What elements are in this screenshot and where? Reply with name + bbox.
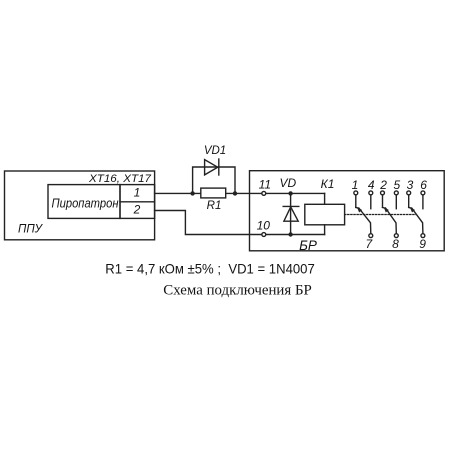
svg-text:R1 = 4,7 кОм ±5% ; VD1 = 1N40: R1 = 4,7 кОм ±5% ; VD1 = 1N4007 bbox=[105, 260, 315, 276]
diode VD1 (triangle) bbox=[205, 160, 218, 175]
contact group 2 (pins 2,5,8) bbox=[383, 195, 397, 233]
relay coil K1 (body) bbox=[305, 204, 345, 225]
svg-text:8: 8 bbox=[392, 237, 399, 251]
svg-text:ХТ16, ХТ17: ХТ16, ХТ17 bbox=[88, 173, 152, 185]
box Пиропатрон (inner unit) bbox=[48, 185, 120, 219]
dashed mechanical link from K1 to contacts bbox=[345, 214, 416, 216]
diode VD1 cathode bar bbox=[218, 159, 220, 175]
terminal circle pin 6 bbox=[421, 191, 425, 195]
terminal circle pin 9 bbox=[421, 234, 425, 238]
wire: pin 2 down and right to terminal 10 bbox=[155, 211, 325, 235]
svg-text:7: 7 bbox=[366, 237, 374, 251]
terminal circle 10 bbox=[262, 233, 266, 237]
svg-text:9: 9 bbox=[419, 237, 426, 251]
svg-text:VD1: VD1 bbox=[204, 145, 226, 157]
resistor R1 (body) bbox=[201, 188, 226, 198]
svg-text:3: 3 bbox=[407, 178, 414, 192]
svg-text:ППУ: ППУ bbox=[18, 224, 44, 236]
junction dot VD top bbox=[288, 191, 292, 195]
wire: pin 1 to node A bbox=[155, 192, 201, 194]
box ППУ (outer unit) bbox=[5, 171, 155, 240]
wire: coil K1 top connector bbox=[324, 193, 326, 204]
diode VD (triangle) bbox=[284, 207, 298, 221]
svg-text:1: 1 bbox=[134, 186, 141, 200]
terminal circle pin 2 bbox=[381, 191, 385, 195]
terminal block ХТ16/ХТ17 (pins 1,2) bbox=[120, 185, 155, 219]
svg-text:4: 4 bbox=[368, 178, 375, 192]
node A junction dot (left of R1) bbox=[190, 191, 194, 195]
terminal circle pin 1 bbox=[354, 191, 358, 195]
terminal circle pin 3 bbox=[407, 191, 411, 195]
contact group 1 (pins 1,4,7) bbox=[356, 195, 371, 233]
wire: VD1 branch (left riser, top link) bbox=[193, 167, 219, 193]
svg-text:R1: R1 bbox=[207, 200, 222, 212]
svg-text:2: 2 bbox=[133, 202, 141, 216]
terminal circle pin 7 bbox=[369, 234, 373, 238]
terminal circle pin 4 bbox=[369, 191, 373, 195]
svg-text:Пиропатрон: Пиропатрон bbox=[52, 196, 119, 211]
svg-text:6: 6 bbox=[420, 178, 427, 192]
diode VD cathode bar bbox=[283, 205, 299, 207]
svg-text:2: 2 bbox=[379, 178, 387, 192]
terminal circle 11 bbox=[262, 191, 266, 195]
svg-text:VD: VD bbox=[279, 176, 296, 190]
svg-text:Схема подключения БР: Схема подключения БР bbox=[163, 282, 311, 298]
svg-text:11: 11 bbox=[259, 178, 271, 192]
junction dot VD bottom bbox=[288, 232, 292, 236]
wire: coil K1 bottom connector bbox=[324, 225, 326, 235]
node B junction dot (right of R1) bbox=[233, 191, 237, 195]
svg-text:10: 10 bbox=[257, 219, 271, 233]
contact group 3 (pins 3,6,9) bbox=[409, 195, 423, 233]
wire: VD1 branch (top link right, right riser) bbox=[219, 167, 235, 193]
box БР (relay unit) bbox=[250, 171, 445, 251]
terminal circle pin 5 bbox=[394, 191, 398, 195]
svg-text:1: 1 bbox=[352, 178, 359, 192]
diode VD vertical wire bbox=[290, 193, 292, 234]
svg-text:К1: К1 bbox=[321, 177, 335, 191]
wire: R1 right lead to БР terminal 11 and coil bbox=[226, 192, 325, 194]
svg-text:5: 5 bbox=[394, 178, 401, 192]
svg-text:БР: БР bbox=[299, 238, 317, 253]
terminal circle pin 8 bbox=[394, 234, 398, 238]
